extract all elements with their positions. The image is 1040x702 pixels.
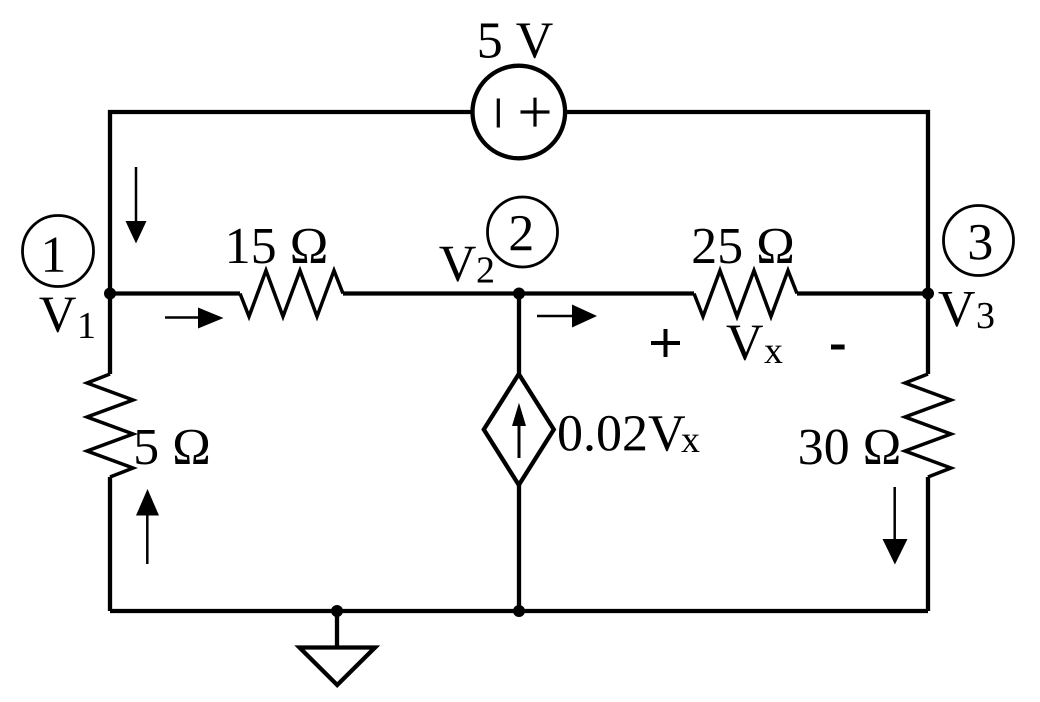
dependent current source 0.02Vx diamond — [484, 374, 554, 485]
node V1 label main — [39, 298, 75, 333]
current arrow right after node 1 — [165, 308, 224, 329]
wire top-left from node 1 up and across to voltage source — [110, 112, 473, 374]
node V3 label subscript 3 — [978, 303, 994, 329]
wire right bottom segment — [926, 477, 930, 611]
plus sign of Vx polarity — [651, 329, 680, 357]
ground stem — [335, 611, 339, 648]
arrow inside dependent source — [512, 403, 526, 458]
label Vx main — [727, 326, 763, 361]
label 15 ohm value — [229, 229, 325, 264]
digit in node circle 3 — [970, 225, 992, 260]
voltage source minus terminal bar — [497, 99, 500, 128]
node V1 label subscript 1 — [80, 313, 93, 338]
current arrow down on left wire — [126, 167, 147, 244]
node 2 junction dot — [513, 288, 525, 300]
node V3 label main — [939, 292, 975, 327]
resistor R 30ohm vertical right — [905, 374, 951, 477]
wire node 1 to 15 ohm resistor — [110, 291, 240, 295]
digit in node circle 2 — [511, 216, 532, 250]
label 25 ohm value — [694, 229, 793, 264]
ground triangle — [300, 648, 376, 686]
current arrow right after node 2 — [537, 305, 597, 328]
label 5 V source value — [480, 24, 553, 59]
voltage source V 5V circle — [473, 66, 566, 159]
minus sign of Vx polarity — [831, 345, 845, 350]
current arrow down lower-right — [883, 487, 908, 565]
wire bottom rail — [110, 609, 928, 613]
label 30 ohm value — [800, 429, 898, 464]
node label circle 3 — [944, 206, 1014, 276]
wire dependent source down to bottom rail — [517, 485, 521, 611]
digit in node circle 1 — [45, 238, 63, 272]
current arrow up lower-left — [136, 489, 159, 564]
wire 25 ohm to node 3 — [797, 291, 928, 295]
junction dot dependent source at bottom rail — [513, 605, 525, 617]
label 5 ohm value — [136, 430, 208, 465]
wire 15 ohm to node 2 — [343, 291, 519, 295]
node label circle 1 — [23, 216, 94, 287]
node 3 junction dot — [922, 288, 934, 300]
junction dot ground at bottom rail — [331, 605, 343, 617]
resistor R 25ohm — [694, 271, 797, 317]
node V2 label main — [439, 247, 475, 282]
wire node 2 down to dependent source — [517, 294, 521, 375]
resistor R 15ohm — [240, 271, 343, 317]
label 0.02Vx main — [559, 416, 685, 451]
wire left bottom segment — [108, 477, 112, 611]
resistor R 5ohm vertical left — [87, 374, 133, 477]
label Vx subscript x — [764, 346, 782, 363]
wire node 2 to 25 ohm resistor — [519, 291, 694, 295]
node 1 junction dot — [104, 288, 116, 300]
label 0.02Vx subscript x — [681, 435, 699, 452]
node V2 label subscript 2 — [478, 257, 493, 282]
node label circle 2 — [488, 197, 558, 267]
voltage source plus sign — [521, 98, 550, 127]
wire top-right from voltage source across and down to node 3 — [565, 112, 928, 374]
